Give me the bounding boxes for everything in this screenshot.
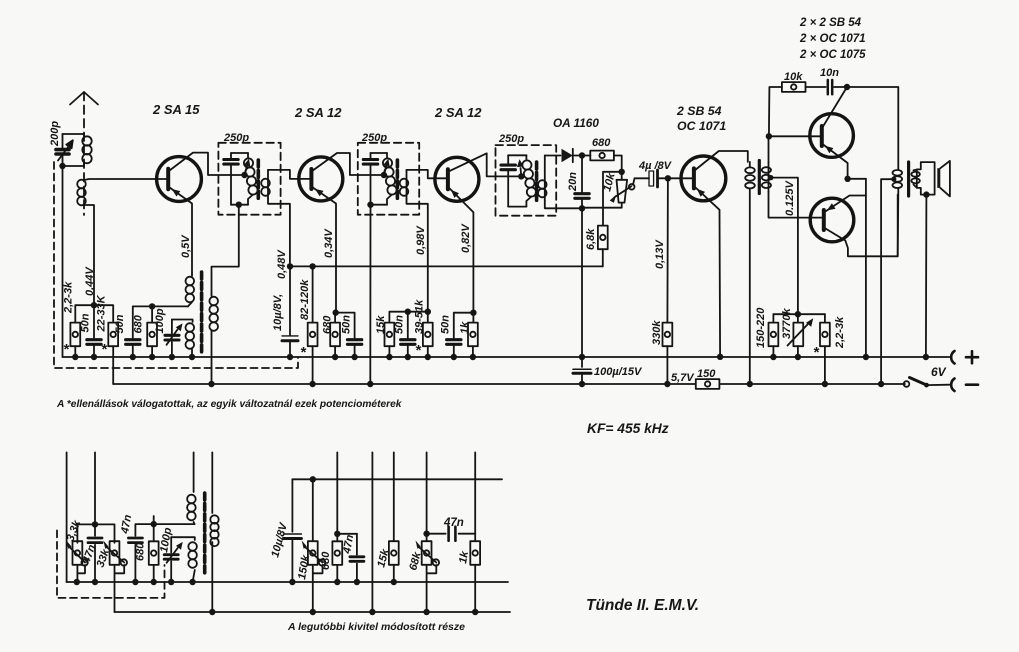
label 50n d (394, 315, 406, 334)
IF transformer 3 box 250p (496, 145, 557, 216)
electrolytic 4µ/8V (649, 170, 694, 187)
svg-text:2 × OC 1071: 2 × OC 1071 (799, 33, 866, 45)
resistor 22-33k (108, 323, 118, 384)
driver secondary centre tap (768, 175, 798, 314)
svg-text:OC 1071: OC 1071 (677, 119, 726, 133)
svg-text:2 SA 15: 2 SA 15 (152, 102, 200, 117)
label 2,2-3k b (834, 316, 846, 349)
label 4µ/8V (638, 160, 673, 172)
junction dots lower rail B (209, 609, 478, 615)
variable capacitor 100p (165, 320, 183, 358)
electrolytic 100µ/15V (573, 357, 591, 387)
label 50n c (341, 315, 353, 334)
svg-text:0,44V: 0,44V (84, 266, 96, 296)
IF3 primary coil (517, 155, 536, 206)
svg-text:3770k: 3770k (781, 308, 793, 339)
svg-text:2 × 2 SB 54: 2 × 2 SB 54 (799, 17, 862, 29)
svg-text:100p: 100p (154, 308, 166, 333)
svg-text:50n: 50n (341, 315, 353, 334)
label output types (799, 17, 866, 61)
driver transformer secondary (762, 133, 824, 218)
bias network top wire (773, 311, 825, 317)
svg-text:680: 680 (322, 315, 334, 334)
svg-text:20n: 20n (567, 172, 579, 192)
svg-text:2,2-3k: 2,2-3k (834, 316, 846, 349)
capacitor 50n a (87, 305, 101, 357)
resistor 150 series (696, 379, 720, 389)
feedback resistor 10k (769, 82, 826, 136)
star mark 3 (300, 344, 307, 361)
label 1k (459, 321, 471, 334)
label 0,44V (84, 266, 96, 296)
IF3 wires (508, 155, 526, 206)
junction dots plus rail left (72, 354, 195, 360)
low transformer coil B (188, 542, 197, 582)
lower node2 wire (135, 516, 194, 536)
volume potentiometer 10k (582, 172, 649, 208)
resistor 6.8k (598, 226, 608, 267)
driver transformer primary (745, 162, 755, 387)
label 330k (651, 320, 663, 345)
svg-text:15k: 15k (375, 315, 387, 334)
resistor 680 det (582, 151, 625, 175)
label 33k low (95, 547, 113, 569)
label 15k low (375, 547, 392, 569)
label 39-51k (414, 299, 426, 334)
star mark 4 (415, 342, 422, 359)
resistor 15k (385, 323, 395, 357)
capacitor 47n d series (427, 527, 476, 541)
oscillator secondary (209, 294, 218, 384)
label 150 (697, 368, 716, 380)
wire T4 base divider (666, 178, 669, 322)
label 100µ/15V (594, 366, 643, 378)
IF2 primary coil (383, 153, 397, 205)
svg-text:47n: 47n (119, 513, 134, 535)
label 2,2-3k (63, 281, 75, 314)
rail minus (113, 383, 905, 385)
svg-text:0,5V: 0,5V (180, 234, 192, 258)
resistor 82-120k (308, 266, 318, 384)
driver transformer core (758, 161, 761, 194)
oscillator coil A wire (172, 320, 193, 323)
svg-text:680: 680 (135, 542, 147, 561)
resistor 330k (663, 323, 673, 388)
svg-text:680: 680 (592, 137, 611, 149)
IF1 secondary coil (261, 170, 311, 267)
label 6V (931, 365, 947, 379)
switch (904, 378, 950, 388)
gang dashed link (54, 162, 298, 368)
capacitor 50n e (447, 340, 461, 357)
low transformer core (203, 493, 207, 573)
label 5,7V (671, 372, 695, 384)
junction dots plus rail mid (287, 354, 476, 360)
capacitor 50n c (347, 340, 361, 357)
bias node wire T1 base network (75, 302, 113, 323)
label 2SA15 (152, 102, 200, 117)
transistor T5 output upper (810, 87, 866, 182)
label 680 low2 (320, 551, 332, 570)
svg-text:2,2-3k: 2,2-3k (63, 281, 75, 314)
label 100p low (158, 526, 174, 553)
low transformer secondary (210, 452, 218, 612)
svg-text:250p: 250p (498, 133, 524, 145)
svg-text:*: * (813, 344, 820, 361)
transistor T1 2SA15 (157, 153, 248, 274)
IF transformer 2 box 250p (358, 143, 419, 215)
resistor 680 b (330, 313, 340, 357)
wire 100p to coil (171, 537, 195, 540)
svg-text:50n: 50n (440, 315, 452, 334)
IF2 core (396, 160, 400, 200)
svg-text:100µ/15V: 100µ/15V (594, 366, 643, 378)
label 100p (154, 308, 166, 333)
svg-text:0.125V: 0.125V (784, 179, 796, 216)
electrolytic 10µ/8V low (283, 479, 301, 582)
label 150-220 (755, 307, 767, 348)
label 680 a (133, 314, 145, 333)
label Tunde (586, 597, 699, 614)
oscillator transformer L2 (186, 274, 195, 357)
label 250p a (223, 132, 249, 144)
output transformer secondary (911, 170, 919, 188)
resistor 2.2-3k (70, 323, 80, 357)
IF1 primary coil (244, 153, 258, 205)
label 0,34V (323, 228, 335, 258)
terminal minus (951, 379, 978, 392)
svg-text:10n: 10n (820, 67, 839, 79)
svg-text:A legutóbbi kivitel módosított: A legutóbbi kivitel módosított része (287, 621, 465, 633)
caption modified (287, 621, 465, 633)
resistor 15k low (389, 452, 399, 582)
wire 20n ground (579, 208, 585, 360)
wire antenna tank top (63, 133, 85, 135)
svg-text:0,48V: 0,48V (276, 249, 288, 279)
coupling coil L1b (77, 179, 168, 305)
oscillator core (200, 272, 204, 352)
svg-text:1k: 1k (457, 550, 471, 565)
resistor 1k low (470, 452, 480, 612)
label 200p (49, 121, 61, 147)
resistor 39-51k (423, 323, 433, 357)
loudspeaker (917, 161, 950, 360)
lower left feed wire (66, 452, 68, 582)
svg-text:*: * (101, 341, 108, 358)
feedback capacitor 10n (828, 80, 898, 94)
svg-text:0,98V: 0,98V (415, 225, 427, 255)
IF2 wires (367, 153, 387, 384)
label 50n b (114, 314, 126, 333)
lower dashed box (57, 530, 165, 598)
IF2 secondary coil (400, 170, 448, 312)
junction dots lower rail A (74, 579, 397, 585)
label 10µ/8V low (269, 520, 290, 559)
svg-text:Tünde II. E.M.V.: Tünde II. E.M.V. (586, 597, 699, 614)
svg-text:2 SA 12: 2 SA 12 (294, 105, 342, 120)
capacitor 50n b (126, 340, 140, 357)
label 22-33k (96, 294, 108, 332)
preset 3700 (788, 314, 814, 360)
antenna ferrite rod axis (70, 92, 98, 215)
label 15k (375, 315, 387, 334)
svg-text:250p: 250p (361, 132, 387, 144)
transistor T4 2SB54 (681, 151, 748, 360)
label 2SB54 OC1071 (676, 104, 726, 133)
label 10µ/8V a (272, 294, 284, 331)
lower bias rail (292, 476, 502, 482)
variable capacitor 100p low (164, 537, 183, 582)
IF3 core (535, 162, 539, 202)
label 680 low (135, 542, 147, 561)
IF1 wires (212, 153, 249, 294)
variable capacitor 200p (56, 134, 73, 166)
resistor 680 low2 (332, 452, 342, 582)
svg-text:47n: 47n (341, 533, 356, 555)
label 6,8k (585, 228, 597, 250)
IF1 capacitor 250p (224, 153, 238, 205)
IF3 capacitor 250p (501, 155, 515, 206)
label 0,13V (654, 239, 666, 269)
wire upper base (769, 135, 822, 137)
svg-text:200p: 200p (49, 121, 61, 147)
svg-text:50n: 50n (114, 314, 126, 333)
rail plus (63, 356, 950, 358)
svg-text:150-220: 150-220 (755, 307, 767, 348)
capacitor 47n c (337, 534, 364, 582)
label 3,3k low (65, 518, 84, 543)
potentiometer 68k (416, 452, 440, 612)
svg-text:82-120k: 82-120k (299, 279, 311, 320)
svg-text:6,8k: 6,8k (585, 228, 597, 250)
output transformer core (907, 162, 910, 196)
resistor 2,2-3k b (820, 314, 830, 387)
wire 6.8k feed (603, 172, 622, 226)
capacitor 47n b (128, 538, 142, 582)
resistor 680 a (147, 306, 157, 357)
terminal plus (951, 351, 978, 364)
junction dots minus rail left (208, 381, 373, 387)
wire antenna ground (62, 166, 64, 357)
wire antenna tank bottom (59, 163, 84, 169)
label 3700 (781, 308, 793, 339)
low transformer coil A (187, 452, 196, 524)
svg-text:10k: 10k (784, 71, 803, 83)
capacitor 50n d (401, 312, 415, 357)
svg-text:150k: 150k (296, 553, 312, 580)
label OA1160 (553, 116, 599, 130)
base network T3 wire (389, 309, 431, 323)
AGC rail (287, 263, 603, 269)
emitter node wire T1 (133, 303, 188, 338)
svg-text:2 SA 12: 2 SA 12 (434, 105, 482, 120)
IF3 secondary coil (538, 156, 582, 209)
svg-text:5,7V: 5,7V (671, 372, 695, 384)
label 68k low (407, 550, 424, 572)
label KF455 (587, 421, 669, 436)
IF2 capacitor 250p (363, 153, 377, 205)
lower node1 wire (77, 452, 114, 542)
resistor 680 low (149, 524, 159, 582)
label 47n d low (443, 517, 464, 529)
label 0,5V (180, 234, 192, 258)
svg-text:0,34V: 0,34V (323, 228, 335, 258)
lower rails (67, 582, 510, 612)
svg-text:KF= 455 kHz: KF= 455 kHz (587, 421, 669, 436)
label 47n a low (80, 543, 98, 566)
IF transformer 1 box 250p (218, 143, 280, 215)
label 50n e (440, 315, 452, 334)
label 50n a (80, 313, 92, 332)
svg-text:680: 680 (133, 314, 145, 333)
caption star note (56, 399, 403, 410)
transistor T6 output lower (810, 195, 898, 257)
transistor T2 2SA12 (299, 153, 387, 313)
svg-text:330k: 330k (651, 320, 663, 345)
label 20n (567, 172, 579, 192)
label 0,98V (415, 225, 427, 255)
label 0,82V (460, 223, 472, 253)
label 10k pot (601, 171, 618, 193)
transistor T3 2SA12 (435, 153, 525, 322)
emitter network T3 wire (454, 310, 477, 338)
potentiometer 33k (103, 541, 127, 613)
label 0,48V (276, 249, 288, 279)
label 2SA12 a (294, 105, 342, 120)
label 2SA12 b (434, 105, 482, 120)
label 0.125V (784, 179, 796, 216)
diode OA1160 (562, 149, 586, 162)
output primary centre tap (878, 177, 897, 388)
label 1k low (457, 550, 471, 565)
svg-text:0,82V: 0,82V (460, 223, 472, 253)
wire emitters join (863, 179, 869, 360)
star mark 5 (813, 344, 820, 361)
label 680 det (592, 137, 611, 149)
svg-text:A *ellenállások válogatottak,: A *ellenállások válogatottak, az egyik v… (56, 399, 403, 410)
svg-text:2 × OC 1075: 2 × OC 1075 (799, 49, 866, 61)
svg-text:50n: 50n (80, 313, 92, 332)
capacitor 20n (575, 156, 589, 212)
emitter network T2 wire (333, 309, 355, 338)
label 47n b low (119, 513, 134, 535)
svg-text:OA 1160: OA 1160 (553, 116, 599, 130)
svg-text:47n: 47n (443, 517, 464, 529)
resistor 150-220 (769, 314, 779, 360)
svg-text:50n: 50n (394, 315, 406, 334)
star mark 2 (101, 341, 108, 358)
label 47n c low (341, 533, 356, 555)
label 250p b (361, 132, 387, 144)
svg-text:10µ/8V,: 10µ/8V, (272, 294, 284, 331)
svg-text:39-51k: 39-51k (414, 299, 426, 334)
electrolytic 10µ/8V (282, 266, 298, 357)
svg-text:2 SB 54: 2 SB 54 (676, 104, 722, 118)
output transformer primary (893, 87, 903, 256)
potentiometer 150k (302, 479, 326, 612)
label 82-120k (299, 279, 311, 320)
svg-text:4µ /8V: 4µ /8V (638, 160, 673, 172)
potentiometer 3,3k (66, 541, 88, 583)
svg-text:250p: 250p (223, 132, 249, 144)
svg-text:6V: 6V (931, 365, 947, 379)
svg-text:680: 680 (320, 551, 332, 570)
IF1 core (256, 160, 260, 200)
svg-text:0,13V: 0,13V (654, 239, 666, 269)
label 10n fb (820, 67, 839, 79)
antenna coil L1 (82, 134, 91, 166)
star mark 1 (63, 341, 70, 358)
svg-text:22-33K: 22-33K (96, 294, 108, 332)
capacitor 47n a (88, 524, 102, 582)
svg-text:*: * (300, 344, 307, 361)
label 250p c (498, 133, 524, 145)
label 10k fb (784, 71, 803, 83)
svg-text:150: 150 (697, 368, 716, 380)
label 680 b (322, 315, 334, 334)
strap wire (371, 452, 373, 612)
svg-text:*: * (63, 341, 70, 358)
label 150k low (296, 553, 312, 580)
resistor 1k (468, 323, 478, 357)
svg-text:1k: 1k (459, 321, 471, 334)
